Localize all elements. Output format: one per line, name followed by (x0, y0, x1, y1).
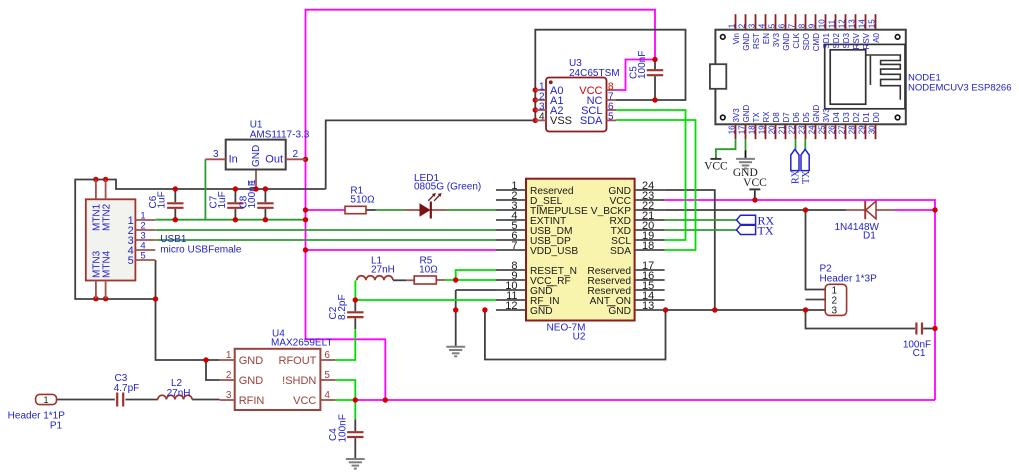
svg-text:GND: GND (782, 33, 791, 51)
svg-text:D7: D7 (782, 112, 791, 123)
svg-text:MTN2: MTN2 (102, 203, 113, 231)
svg-text:micro USBFemale: micro USBFemale (160, 245, 242, 256)
svg-text:11: 11 (827, 19, 836, 28)
svg-text:VCC: VCC (743, 177, 767, 189)
svg-text:3V3: 3V3 (772, 32, 781, 47)
svg-text:MAX2659ELT: MAX2659ELT (271, 338, 333, 349)
svg-text:In: In (229, 154, 238, 166)
svg-text:GND: GND (742, 33, 751, 51)
svg-text:9: 9 (807, 23, 816, 28)
svg-text:20: 20 (767, 125, 776, 134)
svg-text:D2: D2 (852, 112, 861, 123)
svg-text:2: 2 (737, 23, 746, 28)
svg-text:RST: RST (752, 33, 761, 49)
svg-text:USB1: USB1 (160, 234, 187, 245)
svg-text:D1: D1 (862, 112, 871, 123)
svg-text:8.2pF: 8.2pF (337, 294, 348, 320)
svg-text:SDA: SDA (580, 115, 603, 127)
svg-text:25: 25 (817, 125, 826, 134)
svg-text:19: 19 (757, 125, 766, 134)
svg-text:28: 28 (847, 125, 856, 134)
svg-text:22: 22 (787, 125, 796, 134)
svg-text:VDD_USB: VDD_USB (530, 246, 578, 257)
svg-text:VCC: VCC (704, 160, 728, 172)
svg-text:100nF: 100nF (637, 51, 648, 79)
svg-text:14: 14 (857, 19, 866, 28)
svg-text:100nF: 100nF (338, 414, 349, 442)
svg-text:13: 13 (642, 300, 654, 312)
svg-text:D6: D6 (792, 112, 801, 123)
svg-text:3: 3 (747, 23, 756, 28)
svg-text:GND: GND (742, 105, 751, 123)
svg-text:Vin: Vin (732, 33, 741, 44)
svg-text:8: 8 (797, 23, 806, 28)
svg-text:SD2: SD2 (832, 32, 841, 48)
svg-text:6: 6 (324, 350, 330, 361)
svg-text:RX: RX (762, 111, 771, 123)
svg-text:TX: TX (752, 112, 761, 123)
svg-text:5: 5 (608, 112, 614, 123)
svg-text:Header 1*3P: Header 1*3P (820, 274, 878, 285)
svg-text:5: 5 (128, 255, 134, 267)
svg-text:D1: D1 (863, 231, 876, 242)
svg-text:24: 24 (807, 125, 816, 134)
svg-text:13: 13 (847, 19, 856, 28)
svg-text:P1: P1 (50, 421, 63, 432)
svg-text:D5: D5 (802, 112, 811, 123)
svg-text:26: 26 (827, 125, 836, 134)
svg-text:D8: D8 (772, 112, 781, 123)
svg-text:GND: GND (608, 306, 631, 317)
svg-text:SD1: SD1 (822, 32, 831, 48)
svg-text:27nH: 27nH (167, 388, 191, 399)
svg-text:24C65TSM: 24C65TSM (569, 68, 620, 79)
svg-text:5: 5 (140, 251, 145, 262)
svg-text:SDA: SDA (610, 246, 631, 257)
svg-text:VSS: VSS (550, 115, 572, 127)
svg-text:CMD: CMD (812, 33, 821, 51)
svg-text:SD3: SD3 (842, 32, 851, 48)
svg-text:VCC: VCC (293, 395, 316, 407)
svg-text:2: 2 (226, 370, 232, 381)
svg-text:CLK: CLK (792, 32, 801, 48)
svg-text:12: 12 (505, 300, 517, 312)
svg-text:GND: GND (239, 355, 264, 367)
svg-text:5: 5 (767, 23, 776, 28)
svg-text:4.7pF: 4.7pF (114, 383, 140, 394)
svg-text:C1: C1 (913, 348, 926, 359)
svg-text:GND: GND (530, 306, 553, 317)
svg-text:5: 5 (324, 370, 330, 381)
svg-text:GND: GND (239, 375, 264, 387)
svg-text:1uF: 1uF (157, 191, 168, 208)
svg-text:7: 7 (787, 23, 796, 28)
svg-text:3: 3 (832, 306, 838, 317)
svg-text:1: 1 (226, 350, 232, 361)
svg-text:4: 4 (539, 112, 545, 123)
svg-text:EN: EN (762, 33, 771, 44)
svg-text:17: 17 (737, 125, 746, 134)
svg-text:7: 7 (511, 240, 517, 252)
svg-text:AMS1117-3.3: AMS1117-3.3 (250, 129, 310, 140)
svg-text:SDO: SDO (802, 33, 811, 50)
svg-text:3V3: 3V3 (732, 108, 741, 123)
svg-text:3V3: 3V3 (822, 108, 831, 123)
svg-text:TX: TX (801, 170, 812, 184)
svg-text:GND: GND (812, 105, 821, 123)
svg-text:4: 4 (757, 23, 766, 28)
svg-text:27nH: 27nH (371, 265, 395, 276)
svg-text:29: 29 (857, 125, 866, 134)
svg-text:NODEMCUV3 ESP8266: NODEMCUV3 ESP8266 (908, 83, 1011, 94)
svg-text:16: 16 (727, 125, 736, 134)
svg-text:12: 12 (837, 19, 846, 28)
svg-text:0805G (Green): 0805G (Green) (414, 182, 481, 193)
svg-text:GND: GND (251, 145, 262, 167)
svg-text:TX: TX (758, 224, 774, 238)
svg-text:RSV: RSV (852, 32, 861, 49)
svg-text:1uF: 1uF (217, 191, 228, 208)
svg-text:2: 2 (293, 149, 299, 160)
svg-text:RFIN: RFIN (239, 395, 265, 407)
svg-text:3: 3 (226, 390, 232, 401)
svg-text:27: 27 (837, 125, 846, 134)
svg-text:3: 3 (213, 149, 219, 160)
svg-text:1: 1 (727, 23, 736, 28)
svg-text:Out: Out (265, 154, 283, 166)
svg-text:RSV: RSV (862, 32, 871, 49)
svg-text:1: 1 (43, 395, 48, 405)
svg-text:10Ω: 10Ω (419, 265, 438, 276)
svg-text:U2: U2 (573, 332, 586, 343)
svg-text:6: 6 (777, 23, 786, 28)
svg-text:4: 4 (324, 390, 330, 401)
svg-text:15: 15 (867, 19, 876, 28)
svg-text:30: 30 (867, 125, 876, 134)
svg-text:D4: D4 (832, 112, 841, 123)
svg-text:510Ω: 510Ω (350, 195, 375, 206)
svg-text:18: 18 (642, 240, 654, 252)
svg-text:100nF: 100nF (247, 180, 258, 208)
svg-text:10: 10 (817, 19, 826, 28)
svg-text:D3: D3 (842, 112, 851, 123)
svg-text:D0: D0 (872, 112, 881, 123)
svg-text:21: 21 (777, 125, 786, 134)
svg-text:23: 23 (797, 125, 806, 134)
svg-text:!SHDN: !SHDN (282, 375, 316, 387)
svg-text:18: 18 (747, 125, 756, 134)
svg-text:MTN4: MTN4 (102, 250, 113, 278)
svg-text:A0: A0 (872, 32, 881, 42)
svg-text:RFOUT: RFOUT (279, 355, 317, 367)
